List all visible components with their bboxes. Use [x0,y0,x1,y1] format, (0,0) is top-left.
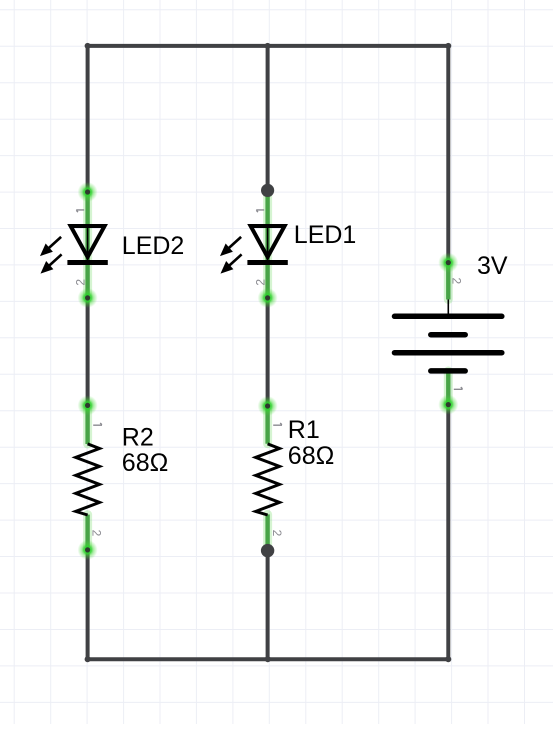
svg-text:2: 2 [449,278,463,285]
svg-text:2: 2 [270,530,284,537]
svg-text:2: 2 [254,279,268,286]
svg-text:68Ω: 68Ω [122,449,169,477]
svg-text:3V: 3V [477,252,508,280]
svg-text:R1: R1 [288,416,320,444]
svg-text:LED1: LED1 [294,221,357,249]
svg-text:LED2: LED2 [122,232,185,260]
svg-text:2: 2 [90,530,104,537]
svg-text:68Ω: 68Ω [288,442,335,470]
svg-text:2: 2 [74,279,88,286]
svg-text:R2: R2 [122,424,154,452]
